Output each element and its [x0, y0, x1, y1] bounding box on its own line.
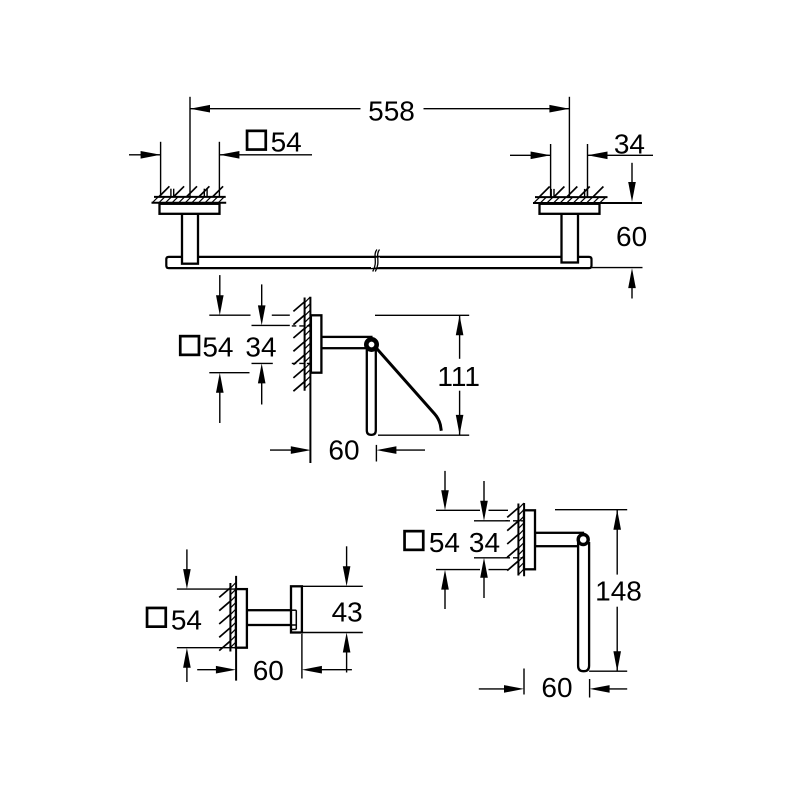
svg-text:54: 54 [429, 527, 460, 558]
svg-text:148: 148 [595, 576, 642, 607]
svg-text:60: 60 [253, 655, 284, 686]
svg-text:54: 54 [271, 127, 302, 158]
svg-text:34: 34 [245, 331, 276, 362]
svg-text:60: 60 [616, 221, 647, 252]
svg-text:60: 60 [328, 435, 359, 466]
svg-text:60: 60 [541, 672, 572, 703]
svg-text:43: 43 [332, 597, 363, 628]
svg-text:558: 558 [368, 96, 415, 127]
svg-text:111: 111 [437, 361, 480, 392]
svg-text:34: 34 [614, 129, 645, 160]
svg-text:34: 34 [469, 527, 500, 558]
svg-text:54: 54 [171, 604, 202, 635]
svg-text:54: 54 [202, 331, 233, 362]
